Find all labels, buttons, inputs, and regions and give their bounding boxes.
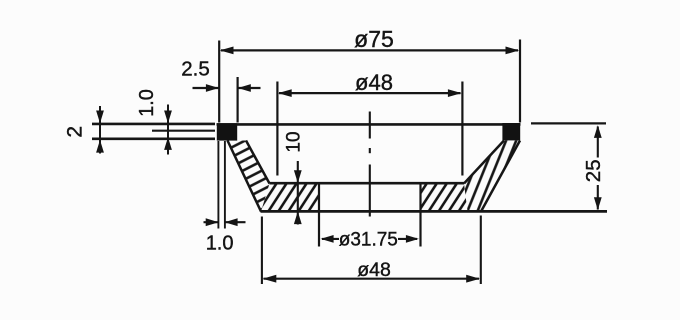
dim ø48 top extension right [461,82,463,176]
dim 2 stem [99,106,101,154]
dim 25 arrow up [594,125,602,138]
dim 1.0 bottom line right [225,221,245,223]
bore edge right extension [419,182,421,247]
dim ø75 line [221,49,518,51]
wheel top surface line [217,123,521,126]
svg-text:1.0: 1.0 [136,89,158,117]
svg-text:25: 25 [582,159,605,182]
centerline dot [369,148,371,153]
dim ø48 bottom arrow left [263,275,277,283]
top right extension line for 25 [531,122,606,124]
svg-text:ø48: ø48 [355,70,393,95]
bottom surface line extended right [261,210,608,213]
svg-text:1.0: 1.0 [206,232,234,254]
dim ø48 bottom line [264,278,480,280]
dim 25 arrow down [594,197,602,210]
dim ø48 bottom arrow right [466,275,480,283]
dim 1.0 left arrow up [164,137,172,150]
flange line L3 [92,137,215,140]
dim 10 stem [297,161,299,225]
dim 1.0 bottom extension right [224,141,226,229]
dim 2.5 line left [193,87,219,89]
dim ø48 top extension left [276,82,278,176]
dim ø75 arrow right [506,47,520,55]
dim ø31.75 arrow left [321,235,334,243]
centerline segment 1 [369,112,371,139]
dim ø48 top line [279,92,461,94]
svg-text:2.5: 2.5 [181,58,210,81]
dim 2.5 extension [237,77,239,123]
dim ø75 arrow left [220,47,234,55]
abrasive segment left [217,123,237,140]
dim 2.5 arrow right [238,84,251,92]
dim ø48 top arrow left [278,89,292,97]
right wall inner edge [464,141,504,184]
dim ø31.75 line left [322,238,339,240]
svg-text:10: 10 [284,131,305,152]
dim 2.5 line right [238,87,261,89]
dim ø48 top arrow right [448,89,462,97]
inner bottom surface line [270,182,465,185]
dim 10 arrow down [294,170,302,183]
dim 1.0 bottom line left [204,221,219,223]
dim 2 arrow up [96,140,104,153]
dim 25 stem lower [597,185,599,210]
bore edge left extension [318,182,320,247]
svg-text:ø75: ø75 [354,26,394,52]
abrasive segment right [502,123,520,140]
bottom left band hatch fill [261,184,319,212]
dim ø48 bottom extension left [261,217,263,285]
svg-text:2: 2 [63,126,86,138]
right wall outer edge [481,141,520,212]
dim 2.5 arrow left [206,84,219,92]
dim ø31.75 arrow right [406,235,419,243]
flange line L1 [92,123,215,126]
dim ø48 bottom extension right [480,216,482,285]
dim ø75 extension left [218,41,220,123]
dim 1.0 left stem [167,105,169,155]
dim ø75 extension right [519,40,521,123]
centerline segment 2 [369,165,371,217]
dim 25 stem upper [597,127,599,158]
left wall inner edge [246,141,270,184]
dim 1.0 bottom arrow left-pointing [225,218,238,226]
left wall hatch fill [228,141,270,212]
dim 2 arrow down [96,111,104,124]
dim 1.0 bottom arrow right-pointing [206,218,219,226]
left wall outer edge [228,141,262,212]
dim 1.0 left arrow down [164,111,172,124]
bottom right band hatch fill [421,184,468,212]
svg-text:ø48: ø48 [357,259,391,281]
flange line L2 [152,130,215,132]
svg-text:ø31.75: ø31.75 [339,229,398,250]
right wall hatch fill [464,141,520,212]
dim ø31.75 line right [398,238,417,240]
dim 10 arrow up [294,211,302,224]
dim 1.0 bottom extension left [217,141,219,229]
